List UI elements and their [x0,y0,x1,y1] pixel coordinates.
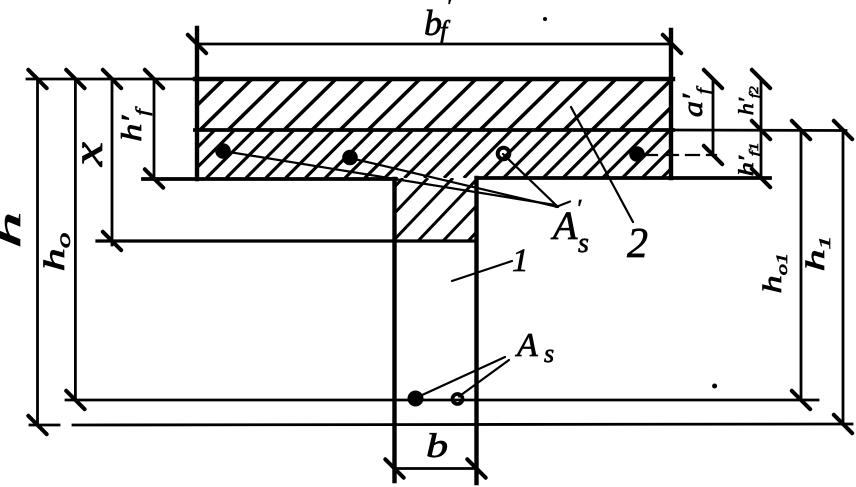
svg-text:x: x [65,141,112,167]
svg-text:A: A [515,327,538,364]
svg-text:1: 1 [512,243,529,279]
svg-text:2: 2 [627,221,648,267]
svg-text:′: ′ [576,196,582,222]
svg-text:s: s [578,228,589,259]
svg-text:h: h [0,212,27,249]
svg-text:b: b [426,427,448,465]
svg-text:s: s [544,339,554,368]
svg-text:A: A [550,203,578,248]
